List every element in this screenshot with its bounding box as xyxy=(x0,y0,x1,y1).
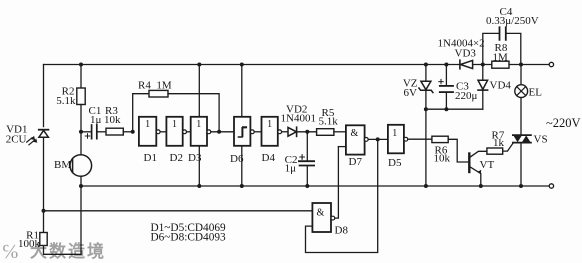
resistor R3 xyxy=(106,128,135,135)
wire D8 input line xyxy=(44,210,313,212)
inverter D3 xyxy=(183,117,234,146)
node at VD1/R1 junction xyxy=(42,209,46,213)
svg-text:10k: 10k xyxy=(434,153,451,165)
schmitt gate D6 xyxy=(234,117,262,146)
capacitor C3 xyxy=(439,63,453,112)
inverter D5 xyxy=(388,125,432,154)
svg-text:1μ: 1μ xyxy=(285,163,297,175)
microphone BM xyxy=(70,155,92,188)
zener VZ xyxy=(419,63,433,189)
resistor R1 xyxy=(40,233,47,246)
svg-text:10k: 10k xyxy=(104,114,121,126)
svg-text:BM: BM xyxy=(54,159,71,171)
wire D6 power pins xyxy=(241,65,243,187)
inverter D4 xyxy=(262,117,289,146)
svg-text:VS: VS xyxy=(534,134,548,146)
resistor R6 xyxy=(432,136,469,162)
watermark xyxy=(2,241,106,263)
svg-text:&: & xyxy=(317,208,325,219)
svg-text:VT: VT xyxy=(480,159,495,171)
wire D3 power pins xyxy=(198,65,200,187)
svg-text:℅: ℅ xyxy=(2,241,19,263)
diode VD3 xyxy=(460,60,473,69)
svg-text:D3: D3 xyxy=(188,152,202,164)
svg-text:D8: D8 xyxy=(335,225,349,237)
inverter D1 xyxy=(139,117,156,146)
svg-text:D7: D7 xyxy=(349,156,363,168)
resistor R7 xyxy=(487,143,514,155)
resistor R2 xyxy=(77,63,85,134)
svg-text:1μ: 1μ xyxy=(90,114,102,126)
capacitor C4 bridge xyxy=(483,27,521,64)
svg-text:~220V: ~220V xyxy=(546,116,581,130)
wire bottom rail xyxy=(81,185,549,187)
svg-text:2CU: 2CU xyxy=(6,134,27,146)
svg-text:D6: D6 xyxy=(230,153,244,165)
wire top rail xyxy=(44,64,550,66)
nand gate D8 xyxy=(312,147,338,232)
svg-text:1M: 1M xyxy=(493,52,509,64)
capacitor C1 xyxy=(81,125,106,139)
wire D8 feedback loop xyxy=(306,139,378,252)
svg-text:VD4: VD4 xyxy=(490,80,512,92)
svg-text:1N4001: 1N4001 xyxy=(281,113,316,125)
terminal top right xyxy=(549,62,553,66)
svg-text:0.33μ/250V: 0.33μ/250V xyxy=(486,15,539,27)
diode VD4 xyxy=(478,63,488,110)
wire ground link VZ/C3/VD4 xyxy=(426,108,483,110)
svg-text:220μ: 220μ xyxy=(455,90,478,102)
diode VD2 xyxy=(288,127,317,136)
nand gate D7 xyxy=(346,125,388,154)
terminal bottom right xyxy=(549,184,553,188)
svg-text:1: 1 xyxy=(267,119,272,130)
wire BM column xyxy=(80,132,82,255)
svg-text:1: 1 xyxy=(196,119,201,130)
svg-text:6V: 6V xyxy=(404,87,418,99)
svg-text:D2: D2 xyxy=(170,152,183,164)
svg-text:D6~D8:CD4093: D6~D8:CD4093 xyxy=(151,232,227,244)
svg-text:1: 1 xyxy=(172,119,177,130)
photodiode VD1 xyxy=(27,130,49,145)
resistor R4 with branch wires xyxy=(133,90,221,133)
capacitor C2 xyxy=(299,132,314,188)
svg-text:大数造境: 大数造境 xyxy=(30,241,106,261)
svg-text:EL: EL xyxy=(529,87,543,99)
transistor VT xyxy=(469,151,487,188)
resistor R5 xyxy=(317,129,346,136)
wire left column (VD1 branch) xyxy=(44,65,82,255)
svg-text:5.1k: 5.1k xyxy=(319,116,339,128)
svg-text:D5: D5 xyxy=(388,157,402,169)
svg-text:D1: D1 xyxy=(144,152,157,164)
svg-text:R4 1M: R4 1M xyxy=(138,80,172,92)
svg-text:&: & xyxy=(351,128,359,139)
svg-text:1k: 1k xyxy=(493,137,505,149)
triac VS xyxy=(513,63,531,189)
lamp EL xyxy=(515,65,528,98)
inverter D2 xyxy=(156,117,182,146)
resistor R8 xyxy=(492,61,509,68)
svg-text:D4: D4 xyxy=(262,152,276,164)
svg-text:1: 1 xyxy=(145,119,150,130)
svg-text:1: 1 xyxy=(392,128,397,139)
wire D7 lower input stub xyxy=(338,146,346,148)
svg-text:VD3: VD3 xyxy=(455,48,477,60)
svg-text:5.1k: 5.1k xyxy=(56,95,76,107)
